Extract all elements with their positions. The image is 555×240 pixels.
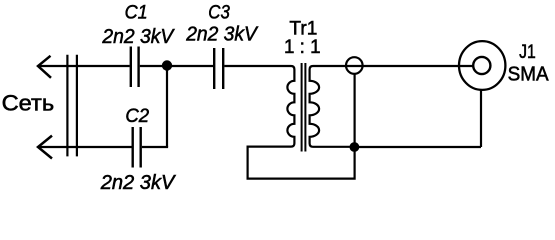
svg-text:2n2 3kV: 2n2 3kV: [101, 26, 175, 48]
svg-text:Сеть: Сеть: [2, 91, 55, 116]
svg-text:J1: J1: [519, 41, 536, 63]
svg-text:2n2 3kV: 2n2 3kV: [100, 172, 177, 194]
svg-text:C3: C3: [208, 2, 230, 24]
svg-text:C2: C2: [125, 105, 149, 127]
svg-text:2n2 3kV: 2n2 3kV: [185, 23, 259, 45]
svg-text:1 : 1: 1 : 1: [284, 36, 321, 58]
svg-text:SMA: SMA: [508, 64, 550, 86]
svg-text:C1: C1: [125, 2, 148, 24]
